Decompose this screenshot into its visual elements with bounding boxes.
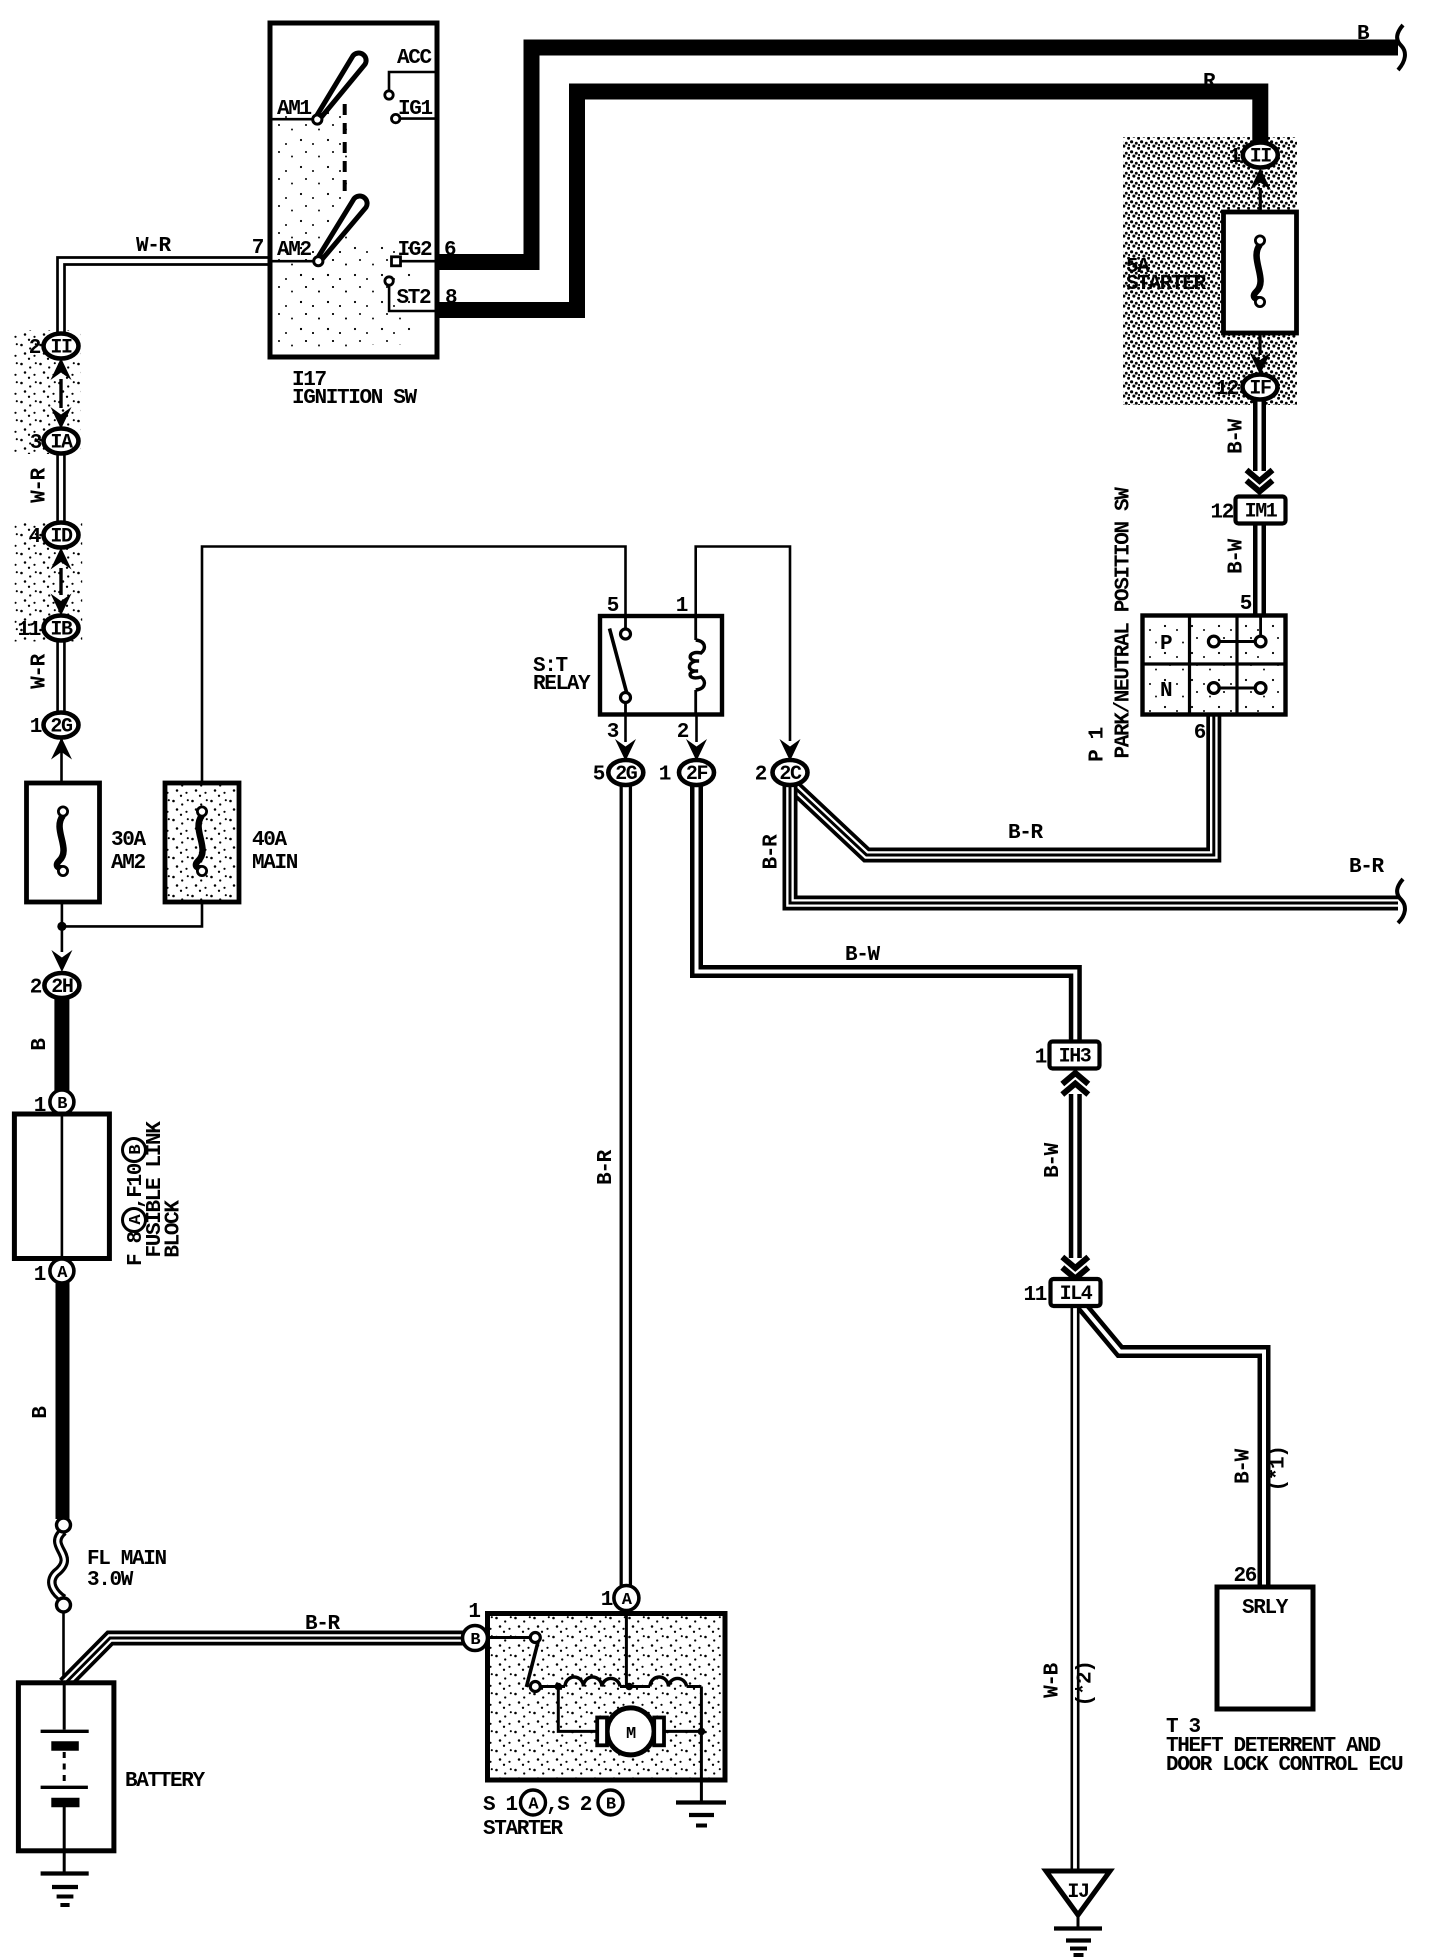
connector 1 IH3 — [1035, 1042, 1100, 1070]
wire B-R from 5 2G down to starter terminal A — [620, 784, 633, 1587]
relay switch contacts — [610, 616, 631, 714]
wire from relay pin 2 to connector 1 2F — [695, 714, 698, 742]
P row contacts — [1208, 617, 1266, 647]
svg-text:W-R: W-R — [136, 235, 172, 258]
FL MAIN 3.0W fusible link — [52, 1518, 71, 1612]
svg-text:IB: IB — [50, 618, 73, 641]
svg-text:IH3: IH3 — [1059, 1045, 1091, 1068]
wire W-R between IA and ID — [56, 452, 66, 524]
svg-text:30A: 30A — [111, 829, 147, 852]
wire R thick from ST2 to connector 1 II — [437, 92, 1260, 311]
svg-text:B-R: B-R — [595, 1149, 618, 1185]
svg-text:PARK/NEUTRAL POSITION SW: PARK/NEUTRAL POSITION SW — [1113, 487, 1136, 759]
svg-text:1: 1 — [30, 716, 42, 739]
svg-text:IF: IF — [1249, 377, 1271, 400]
fusible link terminal 1 A — [50, 1259, 74, 1283]
shaded region around connectors ID/IB — [15, 521, 83, 642]
battery box — [18, 1683, 114, 1851]
svg-text:STARTER: STARTER — [1126, 273, 1207, 296]
wire B-W thick-double from 12 IF to connector 12 IM1 — [1253, 399, 1266, 471]
wire B-W from 1 2F to connector 1 IH3 — [697, 784, 1076, 1043]
label FL MAIN 3.0W — [87, 1548, 167, 1592]
wire B-R triple from 2 2C to park/neutral switch pin 6 — [792, 716, 1214, 855]
fusible link block F8/F10 — [14, 1114, 109, 1259]
svg-text:1: 1 — [1229, 146, 1241, 169]
svg-text:B: B — [606, 1796, 616, 1815]
label P 1 PARK/NEUTRAL POSITION SW (rotated) — [1087, 487, 1136, 762]
svg-text:1: 1 — [676, 595, 688, 618]
wire from junction to 40A MAIN fuse — [62, 902, 202, 926]
terminal AM2 (pin 7) — [252, 237, 323, 266]
svg-text:8: 8 — [445, 287, 457, 310]
label T 3 THEFT DETERRENT AND DOOR LOCK CONTROL ECU — [1166, 1716, 1403, 1777]
svg-text:12: 12 — [1210, 502, 1233, 525]
wire B-W between IH3 and IL4 — [1069, 1094, 1082, 1258]
N row contacts — [1208, 683, 1266, 694]
svg-text:B: B — [57, 1095, 67, 1114]
wire from 2G connector down to 30A AM2 fuse — [60, 737, 63, 783]
svg-text:B-W: B-W — [845, 944, 881, 967]
svg-text:B-W: B-W — [1226, 418, 1249, 454]
fuse 30A AM2 — [27, 783, 100, 902]
svg-text:B-R: B-R — [761, 834, 784, 870]
svg-text:AM2: AM2 — [277, 239, 312, 262]
svg-text:1: 1 — [659, 764, 671, 787]
switch wedge contact lower (AM2) — [319, 196, 367, 258]
svg-text:B-W: B-W — [1226, 538, 1249, 574]
wire from S/T relay pin 1 up and right toward 2 2C — [696, 547, 790, 742]
svg-text:2G: 2G — [615, 763, 638, 786]
wire B thick from 2H to fusible link terminal B — [54, 997, 69, 1091]
chevron arrows below IH3 — [1062, 1073, 1088, 1095]
arrow below 2G — [51, 738, 72, 760]
svg-text:B-W: B-W — [1042, 1142, 1065, 1178]
svg-text:B: B — [29, 1038, 52, 1051]
svg-text:2F: 2F — [686, 763, 708, 786]
shaded region around connectors II/IA — [14, 330, 82, 454]
starter terminal 1 B — [463, 1626, 488, 1651]
wire from 40A MAIN fuse up and right to S/T relay pin 5 — [202, 547, 626, 784]
svg-text:IGNITION SW: IGNITION SW — [292, 387, 418, 410]
svg-text:ST2: ST2 — [397, 287, 432, 310]
svg-text:2G: 2G — [50, 715, 73, 738]
wire from junction to connector 2 2H — [61, 926, 64, 952]
connector 11 IL4 — [1023, 1279, 1100, 1307]
svg-text:IL4: IL4 — [1060, 1283, 1093, 1306]
label F 8 A , F10 B (rotated) — [123, 1139, 149, 1267]
ground (battery) — [41, 1851, 89, 1905]
svg-text:7: 7 — [252, 237, 264, 260]
svg-text:4: 4 — [29, 526, 41, 549]
junction dot — [57, 922, 66, 931]
fuse 40A MAIN — [165, 783, 239, 902]
svg-text:2: 2 — [755, 764, 767, 787]
ignition switch I17 box — [270, 23, 437, 357]
svg-text:3: 3 — [30, 432, 42, 455]
label FUSIBLE LINK BLOCK (rotated) — [144, 1121, 186, 1258]
svg-text:W-R: W-R — [29, 653, 52, 689]
wire end curl (B-R) — [1397, 879, 1405, 923]
svg-text:2: 2 — [29, 337, 41, 360]
svg-text:II: II — [1250, 145, 1272, 168]
connector 12 IF — [1215, 375, 1277, 402]
switch wedge contact upper (AM1) — [318, 53, 366, 116]
svg-text:IJ: IJ — [1067, 1881, 1088, 1904]
starter solenoid coils — [540, 1611, 701, 1691]
svg-text:1: 1 — [1035, 1047, 1047, 1070]
svg-text:RELAY: RELAY — [533, 673, 591, 696]
svg-text:B: B — [470, 1631, 480, 1650]
svg-text:B-R: B-R — [1349, 856, 1385, 879]
terminal AM1 (pin) — [270, 98, 322, 124]
battery cells symbol — [41, 1685, 89, 1851]
arrow below ID — [51, 548, 72, 570]
starter internal switch — [488, 1633, 540, 1692]
relay S/T RELAY box — [600, 616, 722, 715]
wire to starter ground — [700, 1731, 703, 1802]
svg-text:11: 11 — [1023, 1284, 1046, 1307]
connector 12 IM1 — [1210, 497, 1285, 525]
connector 1 II (starter fuse top) — [1250, 168, 1271, 190]
chevron arrows into IL4 — [1062, 1257, 1088, 1279]
svg-text:IG2: IG2 — [398, 239, 433, 262]
ground (starter) — [676, 1803, 726, 1826]
svg-text:2: 2 — [30, 977, 42, 1000]
svg-text:FL MAIN: FL MAIN — [87, 1548, 167, 1571]
relay coil — [689, 616, 704, 714]
svg-text:DOOR LOCK CONTROL ECU: DOOR LOCK CONTROL ECU — [1166, 1754, 1403, 1777]
label I17 IGNITION SW — [292, 369, 418, 410]
chevron arrows into IM1 — [1247, 470, 1273, 492]
wire from fuse to arrow — [1258, 333, 1261, 355]
svg-text:B-R: B-R — [1008, 822, 1044, 845]
arrow into 2 2C — [780, 739, 801, 761]
wire end curl (B) — [1397, 25, 1405, 70]
connector 11 IB — [17, 616, 78, 643]
svg-text:SRLY: SRLY — [1242, 1597, 1289, 1620]
terminal ST2 (pin 8) — [385, 277, 457, 311]
connector 3 IA — [30, 429, 79, 456]
svg-text:M: M — [626, 1725, 636, 1744]
svg-text:6: 6 — [444, 239, 456, 262]
terminal ACC — [385, 47, 437, 99]
connector 2 II — [51, 358, 72, 380]
label 5A STARTER — [1126, 256, 1207, 296]
svg-text:(*1): (*1) — [1268, 1446, 1291, 1491]
svg-text:P 1: P 1 — [1087, 727, 1110, 762]
fusible link terminal 1 B — [50, 1090, 74, 1114]
svg-text:2H: 2H — [51, 976, 73, 999]
arrow into 12 IF — [1250, 353, 1271, 375]
svg-text:5: 5 — [607, 595, 619, 618]
wire from FL MAIN to battery — [62, 1611, 65, 1684]
svg-text:IM1: IM1 — [1245, 500, 1278, 523]
starter box S1/S2 — [488, 1614, 726, 1781]
svg-text:N: N — [1160, 680, 1172, 703]
park/neutral position switch P1 box — [1143, 616, 1286, 715]
arrow into IA — [59, 384, 62, 408]
svg-text:W-R: W-R — [29, 467, 52, 503]
wire from relay pin 3 to connector 5 2G — [624, 714, 627, 742]
wire W-R between IB and 2G — [56, 640, 66, 714]
svg-text:B-W: B-W — [1233, 1448, 1256, 1484]
svg-text:1: 1 — [601, 1589, 613, 1612]
svg-text:B: B — [30, 1406, 53, 1419]
wire from arrow to fuse — [1259, 188, 1262, 212]
svg-text:5: 5 — [593, 764, 605, 787]
svg-text:MAIN: MAIN — [252, 852, 298, 875]
svg-text:5: 5 — [1240, 593, 1252, 616]
wire B-W from 11 IL4 to theft deterrent ECU pin 25 SRLY — [1082, 1306, 1264, 1588]
connector 4 ID — [29, 523, 79, 550]
connector 2 2C — [755, 760, 808, 787]
svg-text:BATTERY: BATTERY — [125, 1770, 206, 1793]
svg-text:R: R — [1203, 71, 1216, 94]
label 40A MAIN — [252, 829, 298, 875]
shaded region around 5A STARTER fuse — [1123, 137, 1297, 405]
svg-text:,S 2: ,S 2 — [546, 1794, 592, 1817]
dashed link between wedges — [343, 104, 347, 194]
theft deterrent ECU connector SRLY box — [1217, 1587, 1313, 1709]
wire B-R triple from 2 2C to right edge — [790, 783, 1398, 903]
svg-text:B: B — [1357, 23, 1370, 46]
label S 1 A , S 2 B — [483, 1790, 623, 1817]
terminal IG2 (pin 6) — [392, 239, 457, 266]
svg-text:ACC: ACC — [397, 47, 433, 70]
label 30A AM2 — [111, 829, 147, 875]
ground (IJ) — [1054, 1915, 1102, 1955]
svg-text:AM1: AM1 — [277, 98, 312, 121]
svg-text:S 1: S 1 — [483, 1794, 518, 1817]
svg-text:IA: IA — [50, 431, 73, 454]
svg-text:STARTER: STARTER — [483, 1818, 564, 1841]
svg-text:AM2: AM2 — [111, 852, 146, 875]
wire W-R from AM2 to connector 2 II — [58, 258, 271, 335]
svg-text:12: 12 — [1215, 378, 1238, 401]
svg-text:P: P — [1160, 633, 1172, 656]
svg-text:ID: ID — [50, 525, 73, 548]
arrow relay pin3 into 5 2G — [615, 739, 636, 761]
wire through fusible link block — [61, 1114, 64, 1259]
wire B-W from 12 IM1 to park/neutral switch pin 5 — [1253, 524, 1266, 617]
starter terminal 1 A — [614, 1586, 639, 1611]
connector 1 2G — [30, 713, 79, 740]
wire B thick from fusible link terminal A to FL MAIN — [56, 1282, 70, 1519]
svg-text:(*2): (*2) — [1075, 1661, 1098, 1706]
connector 1 2F — [659, 760, 714, 787]
terminal IG1 — [392, 98, 438, 123]
wire W-B from 11 IL4 down to ground IJ — [1071, 1307, 1080, 1871]
label S:T RELAY — [533, 655, 591, 696]
svg-text:3.0W: 3.0W — [87, 1569, 134, 1592]
starter motor M — [558, 1687, 705, 1755]
ground IJ triangle — [1046, 1871, 1110, 1915]
svg-text:40A: 40A — [252, 829, 288, 852]
svg-text:BLOCK: BLOCK — [163, 1200, 186, 1258]
connector 2 2H — [30, 973, 80, 1000]
wire from 30A AM2 fuse to junction — [61, 902, 64, 926]
fuse 5A STARTER — [1224, 212, 1297, 333]
svg-text:1: 1 — [34, 1264, 46, 1287]
connector 5 2G — [593, 760, 644, 787]
svg-text:11: 11 — [17, 619, 40, 642]
svg-text:2C: 2C — [779, 763, 802, 786]
arrow into 2H — [51, 950, 72, 972]
svg-text:6: 6 — [1194, 722, 1206, 745]
svg-text:1: 1 — [468, 1601, 480, 1624]
svg-text:II: II — [50, 336, 72, 359]
wire B thick from IG2 to top right edge — [437, 48, 1398, 263]
arrow into IB — [51, 594, 72, 616]
svg-text:B-R: B-R — [305, 1613, 341, 1636]
svg-text:W-B: W-B — [1042, 1662, 1065, 1698]
wire B-R triple from battery to starter terminal B — [65, 1638, 465, 1684]
arrow relay pin2 into 1 2F — [686, 739, 707, 761]
